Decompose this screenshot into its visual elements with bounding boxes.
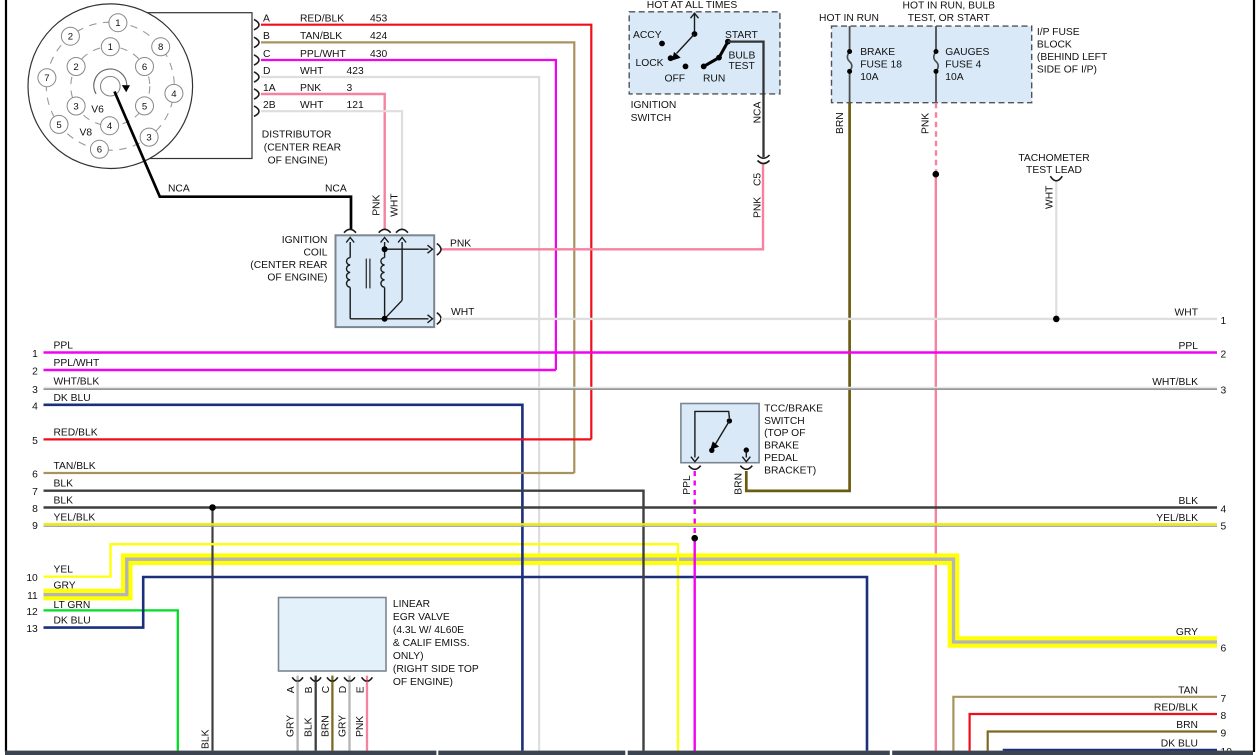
svg-text:TEST: TEST xyxy=(729,61,756,72)
svg-text:TAN/BLK: TAN/BLK xyxy=(54,461,96,472)
svg-text:4: 4 xyxy=(32,401,38,412)
border frame left xyxy=(5,0,7,752)
svg-text:BRN: BRN xyxy=(835,112,846,134)
svg-text:OF ENGINE): OF ENGINE) xyxy=(267,273,327,284)
svg-text:7: 7 xyxy=(32,487,38,498)
wire PNK solid to bottom xyxy=(935,174,937,750)
fuse BRAKE FUSE 18 10A xyxy=(847,26,852,103)
junction dot WHT tach xyxy=(1053,316,1060,323)
border frame right xyxy=(1253,0,1255,752)
wire NCA ignition switch output xyxy=(728,42,764,157)
TCC contact upper dot xyxy=(727,418,732,423)
svg-text:13: 13 xyxy=(26,624,38,635)
svg-text:SIDE OF I/P): SIDE OF I/P) xyxy=(1037,64,1097,75)
svg-text:9: 9 xyxy=(32,521,38,532)
svg-text:IGNITION: IGNITION xyxy=(282,235,328,246)
svg-text:DK BLU: DK BLU xyxy=(54,616,91,627)
svg-text:1: 1 xyxy=(1221,316,1227,327)
svg-text:IGNITION: IGNITION xyxy=(631,100,677,111)
bottom connector bar xyxy=(5,751,436,755)
V8 dashed ring xyxy=(46,22,174,150)
svg-text:BRACKET): BRACKET) xyxy=(764,466,816,477)
distributor V8 terminal 8 xyxy=(152,38,170,56)
svg-text:YEL/BLK: YEL/BLK xyxy=(54,513,96,524)
svg-text:WHT: WHT xyxy=(300,100,324,111)
svg-text:PPL: PPL xyxy=(54,340,74,351)
svg-text:NCA: NCA xyxy=(325,183,347,194)
svg-text:C: C xyxy=(321,685,332,693)
svg-text:DISTRIBUTOR: DISTRIBUTOR xyxy=(262,130,332,141)
svg-text:453: 453 xyxy=(370,14,387,25)
svg-text:BLK: BLK xyxy=(1179,496,1199,507)
svg-text:BLK: BLK xyxy=(54,479,74,490)
svg-text:YEL/BLK: YEL/BLK xyxy=(1156,513,1198,524)
svg-text:1: 1 xyxy=(108,42,113,53)
svg-text:10: 10 xyxy=(26,573,38,584)
svg-text:PNK: PNK xyxy=(921,113,932,134)
coil top connector 3 xyxy=(396,229,408,232)
svg-text:TCC/BRAKE: TCC/BRAKE xyxy=(764,403,823,414)
distributor V8 terminal 4 xyxy=(165,84,183,102)
svg-text:12: 12 xyxy=(26,607,38,618)
svg-text:TACHOMETER: TACHOMETER xyxy=(1018,153,1089,164)
EGR pin C connector xyxy=(327,677,338,681)
svg-text:5: 5 xyxy=(32,436,38,447)
wire DK BLU row4 drop xyxy=(44,405,523,751)
splice dot PPL xyxy=(691,535,698,542)
EGR pin E connector xyxy=(362,677,373,681)
fuse GAUGES FUSE 4 10A xyxy=(934,26,939,103)
svg-text:1A: 1A xyxy=(263,83,276,94)
wire PPL dashed TCC xyxy=(694,471,696,538)
svg-text:6: 6 xyxy=(142,62,147,73)
distributor rotor center xyxy=(101,76,121,96)
wire DK BLU right10 xyxy=(1004,749,1217,752)
svg-text:3: 3 xyxy=(73,101,78,112)
svg-text:WHT/BLK: WHT/BLK xyxy=(54,377,100,388)
svg-text:BLK: BLK xyxy=(304,717,315,737)
distributor box xyxy=(130,13,252,159)
svg-text:LOCK: LOCK xyxy=(636,58,664,69)
svg-text:RUN: RUN xyxy=(703,74,725,85)
svg-text:BRN: BRN xyxy=(734,473,745,495)
svg-text:FUSE 4: FUSE 4 xyxy=(945,60,981,71)
wire GRY shielded center xyxy=(44,559,1218,642)
svg-text:WHT: WHT xyxy=(1045,185,1056,209)
svg-text:121: 121 xyxy=(347,100,364,111)
svg-text:4: 4 xyxy=(171,89,177,100)
wire RED/BLK right8 xyxy=(970,714,1217,751)
connector pin D xyxy=(254,72,259,82)
coil junction dot upper xyxy=(382,246,388,252)
EGR pin B connector xyxy=(310,677,321,681)
wire WHT/BLK row3 xyxy=(44,387,1218,389)
fuse block box xyxy=(832,26,1032,103)
svg-text:B: B xyxy=(304,686,315,693)
svg-text:(CENTER REAR: (CENTER REAR xyxy=(264,143,341,154)
svg-text:YEL: YEL xyxy=(54,565,74,576)
svg-text:GAUGES: GAUGES xyxy=(945,47,989,58)
svg-text:5: 5 xyxy=(142,101,147,112)
connector pin B xyxy=(254,37,259,47)
svg-text:D: D xyxy=(263,66,270,77)
V6 dashed ring xyxy=(71,47,150,126)
svg-text:D: D xyxy=(338,686,349,693)
svg-text:NCA: NCA xyxy=(168,183,190,194)
EGR pin A stub xyxy=(296,676,298,681)
svg-text:NCA: NCA xyxy=(753,102,764,124)
svg-text:430: 430 xyxy=(370,49,387,60)
coil core xyxy=(365,259,367,289)
svg-text:EGR VALVE: EGR VALVE xyxy=(393,612,450,623)
svg-text:(4.3L W/ 4L60E: (4.3L W/ 4L60E xyxy=(393,625,464,636)
svg-text:V6: V6 xyxy=(91,105,104,116)
svg-text:COIL: COIL xyxy=(303,248,327,259)
svg-text:PPL/WHT: PPL/WHT xyxy=(54,358,100,369)
svg-text:PNK: PNK xyxy=(450,239,471,250)
svg-text:WHT: WHT xyxy=(390,193,401,217)
svg-text:9: 9 xyxy=(1221,729,1227,740)
EGR pin B stub xyxy=(315,676,317,681)
svg-text:DK BLU: DK BLU xyxy=(54,393,91,404)
rotation arrow xyxy=(94,69,130,94)
svg-text:3: 3 xyxy=(32,385,38,396)
switch RUN-BULB-START link xyxy=(704,42,728,67)
ignition coil box xyxy=(336,235,435,327)
EGR pin D stub xyxy=(348,676,350,681)
connector pin 2B xyxy=(254,106,259,116)
svg-text:WHT: WHT xyxy=(451,307,475,318)
svg-text:6: 6 xyxy=(97,145,102,156)
svg-text:(RIGHT SIDE TOP: (RIGHT SIDE TOP xyxy=(393,664,479,675)
svg-text:RED/BLK: RED/BLK xyxy=(1154,703,1198,714)
svg-text:BRAKE: BRAKE xyxy=(860,47,895,58)
svg-text:TEST, OR START: TEST, OR START xyxy=(908,13,991,24)
wire BLK row8 drop xyxy=(211,508,213,751)
svg-text:BRN: BRN xyxy=(320,715,331,737)
svg-text:HOT IN RUN, BULB: HOT IN RUN, BULB xyxy=(903,1,996,12)
ignition switch wiper xyxy=(672,34,694,60)
distributor V8 terminal 2 xyxy=(61,27,79,45)
switch contact LOCK xyxy=(668,55,674,61)
svg-text:FUSE 18: FUSE 18 xyxy=(860,60,902,71)
svg-text:BLK: BLK xyxy=(201,729,212,749)
wire PNK EGR pin E xyxy=(366,682,368,751)
svg-text:2: 2 xyxy=(32,367,38,378)
svg-text:PEDAL: PEDAL xyxy=(764,453,798,464)
svg-text:& CALIF EMISS.: & CALIF EMISS. xyxy=(393,638,470,649)
svg-text:3: 3 xyxy=(146,133,151,144)
EGR valve box xyxy=(279,598,387,672)
svg-text:V8: V8 xyxy=(80,128,93,139)
svg-text:11: 11 xyxy=(27,591,38,602)
switch contact OFF xyxy=(683,64,689,70)
svg-text:(CENTER REAR: (CENTER REAR xyxy=(250,260,327,271)
wire GRY EGR pin D xyxy=(348,682,350,751)
svg-text:DK BLU: DK BLU xyxy=(1161,739,1198,750)
wire YEL row10 xyxy=(44,544,679,750)
EGR pin C stub xyxy=(331,676,333,681)
svg-text:BLK: BLK xyxy=(54,496,74,507)
wire PPL row1 xyxy=(44,351,1218,354)
svg-text:7: 7 xyxy=(1221,694,1227,705)
svg-text:5: 5 xyxy=(56,120,61,131)
svg-text:423: 423 xyxy=(347,66,364,77)
coil third lead xyxy=(385,238,407,319)
wire NCA black distributor-to-coil xyxy=(115,92,352,230)
coil primary winding xyxy=(346,238,354,319)
wire BRN right9 xyxy=(988,732,1217,751)
wire BLK EGR pin B xyxy=(315,682,317,751)
svg-text:8: 8 xyxy=(158,42,163,53)
TCC bottom connector left xyxy=(689,466,701,470)
wire BLK row7 drop xyxy=(44,491,644,751)
wire WHT tachometer lead xyxy=(1055,182,1057,319)
svg-text:GRY: GRY xyxy=(1176,627,1198,638)
svg-text:PNK: PNK xyxy=(372,194,383,215)
svg-text:TEST LEAD: TEST LEAD xyxy=(1026,165,1082,176)
distributor V6 terminal 5 xyxy=(136,97,154,115)
svg-text:4: 4 xyxy=(1221,505,1227,516)
ignition switch box xyxy=(629,12,780,94)
distributor V8 terminal 5 xyxy=(50,115,68,133)
connector pin C xyxy=(254,55,259,65)
wire 2B WHT 121 xyxy=(261,111,402,229)
svg-text:10A: 10A xyxy=(945,72,963,83)
wire LT GRN row12 xyxy=(44,610,178,750)
distributor V6 terminal 4 xyxy=(101,117,119,135)
svg-text:RED/BLK: RED/BLK xyxy=(54,427,98,438)
svg-text:HOT IN RUN: HOT IN RUN xyxy=(819,13,879,24)
svg-text:START: START xyxy=(725,30,759,41)
distributor V6 terminal 2 xyxy=(67,58,85,76)
svg-text:PPL: PPL xyxy=(682,475,693,495)
svg-text:LT GRN: LT GRN xyxy=(54,600,91,611)
svg-text:HOT AT ALL TIMES: HOT AT ALL TIMES xyxy=(647,0,738,11)
wire BRN EGR pin C xyxy=(331,682,333,751)
ignition switch arrow to B+ xyxy=(691,13,699,37)
svg-text:PNK: PNK xyxy=(355,716,366,737)
svg-text:424: 424 xyxy=(370,31,387,42)
svg-text:3: 3 xyxy=(347,83,353,94)
wire PNK dashed gauges-fuse xyxy=(935,103,937,175)
svg-text:6: 6 xyxy=(32,470,38,481)
coil bottom bus to WHT output xyxy=(350,315,432,323)
wire PPL solid to bottom xyxy=(694,538,696,750)
connector tachometer xyxy=(1050,176,1062,181)
TCC contact lower dot xyxy=(709,448,714,453)
wire PNK coil-to-C5 xyxy=(441,165,763,250)
svg-text:I/P FUSE: I/P FUSE xyxy=(1037,27,1080,38)
wire D WHT 423 xyxy=(261,77,539,751)
svg-text:SWITCH: SWITCH xyxy=(764,416,805,427)
wire DK BLU row13 xyxy=(44,577,868,751)
wire TAN/BLK row6 xyxy=(44,472,575,474)
svg-text:PNK: PNK xyxy=(300,83,321,94)
svg-text:(TOP OF: (TOP OF xyxy=(764,428,805,439)
connector pin A xyxy=(254,20,259,30)
svg-text:WHT: WHT xyxy=(300,66,324,77)
svg-text:PPL: PPL xyxy=(1179,341,1199,352)
EGR pin D connector xyxy=(344,677,355,681)
svg-text:BRAKE: BRAKE xyxy=(764,441,799,452)
svg-text:A: A xyxy=(263,14,270,25)
svg-text:OF ENGINE): OF ENGINE) xyxy=(393,677,453,688)
EGR pin E stub xyxy=(366,676,368,681)
svg-text:WHT/BLK: WHT/BLK xyxy=(1152,377,1198,388)
splice dot PNK xyxy=(933,171,940,178)
svg-text:2B: 2B xyxy=(263,100,276,111)
junction dot BLK row8 xyxy=(209,504,216,511)
shield YEL around GRY xyxy=(44,559,1218,642)
svg-text:(BEHIND LEFT: (BEHIND LEFT xyxy=(1037,52,1108,63)
svg-text:A: A xyxy=(286,686,297,693)
switch contact ACCY xyxy=(659,41,665,47)
coil tap to PNK output xyxy=(385,245,433,253)
svg-text:4: 4 xyxy=(107,121,113,132)
svg-text:8: 8 xyxy=(32,504,38,515)
svg-text:ONLY): ONLY) xyxy=(393,651,424,662)
svg-text:2: 2 xyxy=(73,62,78,73)
TCC switch blade xyxy=(711,421,730,450)
wire WHT coil to right edge xyxy=(441,318,1217,320)
switch contact RUN xyxy=(701,64,707,70)
svg-text:7: 7 xyxy=(44,73,49,84)
wire B TAN/BLK 424 xyxy=(261,42,574,473)
wire C PPL/WHT 430 xyxy=(261,60,556,370)
wire GRY EGR pin A xyxy=(296,682,298,751)
distributor cap circle xyxy=(28,4,193,169)
svg-text:8: 8 xyxy=(1221,711,1227,722)
distributor V8 terminal 1 xyxy=(109,14,127,32)
svg-text:5: 5 xyxy=(1221,522,1227,533)
wire 1A PNK 3 xyxy=(261,94,385,230)
svg-text:TAN: TAN xyxy=(1178,685,1198,696)
svg-text:10A: 10A xyxy=(860,72,878,83)
svg-text:TAN/BLK: TAN/BLK xyxy=(300,31,342,42)
EGR pin A connector xyxy=(292,677,303,681)
distributor V6 terminal 1 xyxy=(101,38,119,56)
svg-text:3: 3 xyxy=(1221,386,1227,397)
svg-text:2: 2 xyxy=(1221,349,1227,360)
wire YEL/BLK row9 xyxy=(44,523,1218,525)
distributor V6 terminal 3 xyxy=(67,97,85,115)
connector C5 xyxy=(758,155,770,164)
coil secondary winding xyxy=(381,238,389,319)
svg-text:B: B xyxy=(263,31,270,42)
connector pin 1A xyxy=(254,89,259,99)
switch contact BULB TEST xyxy=(716,55,722,61)
wire RED/BLK row5 xyxy=(44,438,592,440)
svg-text:LINEAR: LINEAR xyxy=(393,599,430,610)
TCC internal left pin xyxy=(691,411,730,461)
svg-text:C: C xyxy=(263,49,271,60)
TCC bottom connector right xyxy=(740,466,752,470)
coil PNK output connector xyxy=(437,244,441,256)
svg-text:1: 1 xyxy=(115,18,120,29)
coil WHT output connector xyxy=(437,313,441,325)
svg-text:2: 2 xyxy=(68,32,73,43)
svg-text:SWITCH: SWITCH xyxy=(631,113,672,124)
wire BRN brake-fuse to TCC xyxy=(746,103,849,491)
wire BLK row8 xyxy=(44,506,1218,508)
wire TAN right7 xyxy=(953,697,1217,751)
distributor V6 terminal 6 xyxy=(136,58,154,76)
svg-text:GRY: GRY xyxy=(338,715,349,737)
switch contact START xyxy=(725,39,731,45)
wire A RED/BLK 453 xyxy=(261,25,591,440)
TCC brake switch box xyxy=(681,404,759,463)
coil top connector 1 xyxy=(344,229,356,232)
distributor V8 terminal 7 xyxy=(38,69,56,87)
svg-text:BLOCK: BLOCK xyxy=(1037,40,1072,51)
svg-text:BRN: BRN xyxy=(1176,720,1198,731)
svg-text:WHT: WHT xyxy=(1175,307,1199,318)
svg-text:OF ENGINE): OF ENGINE) xyxy=(268,156,328,167)
coil top connector 2 xyxy=(379,229,391,232)
svg-text:6: 6 xyxy=(1221,644,1227,655)
distributor V8 terminal 6 xyxy=(90,140,108,158)
distributor V8 terminal 3 xyxy=(140,128,158,146)
svg-text:GRY: GRY xyxy=(286,715,297,737)
wire PPL/WHT row2 xyxy=(44,369,556,372)
svg-text:ACCY: ACCY xyxy=(633,30,662,41)
svg-text:1: 1 xyxy=(32,349,38,360)
svg-text:RED/BLK: RED/BLK xyxy=(300,14,344,25)
svg-text:E: E xyxy=(356,686,367,693)
svg-text:PPL/WHT: PPL/WHT xyxy=(300,49,346,60)
svg-text:OFF: OFF xyxy=(665,74,686,85)
TCC right pin xyxy=(742,447,750,461)
coil junction dot lower xyxy=(382,316,388,322)
